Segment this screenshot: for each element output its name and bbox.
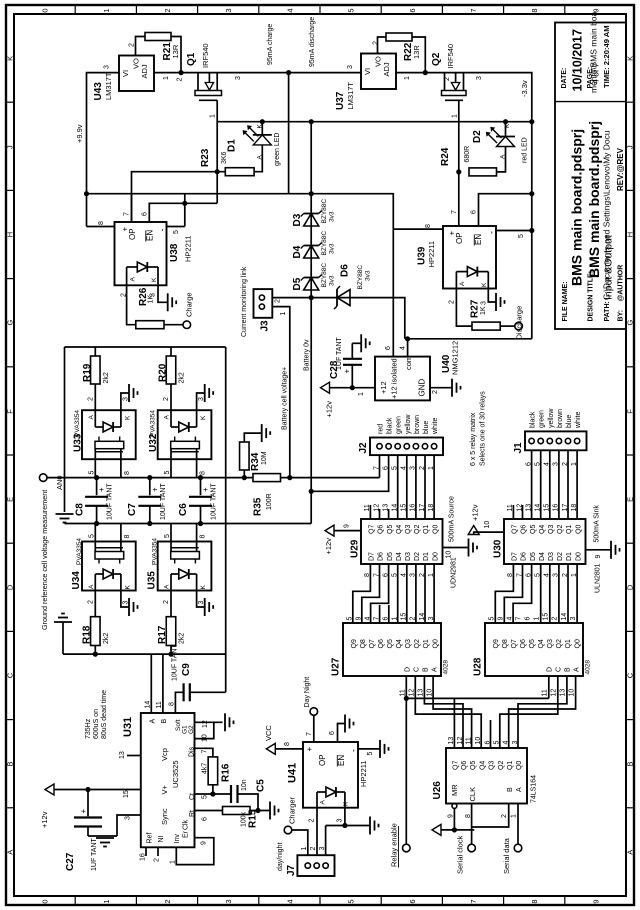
svg-text:-: - [487,231,497,234]
svg-text:+12v: +12v [40,811,49,828]
svg-text:5: 5 [88,471,95,475]
svg-text:C8: C8 [75,503,86,516]
svg-text:9: 9 [591,899,600,903]
svg-text:K: K [151,277,158,282]
svg-text:12: 12 [202,720,209,728]
power VCC U41 pin8 [264,725,303,755]
svg-text:1: 1 [392,617,399,621]
svg-text:K: K [200,415,207,420]
svg-text:2: 2 [444,77,451,81]
svg-text:6 x 5 relay matrix: 6 x 5 relay matrix [470,412,477,466]
svg-text:BZY88C: BZY88C [321,231,328,256]
svg-text:D: D [626,584,635,590]
svg-text:A: A [88,415,95,420]
resistor R18 [82,591,111,655]
pin AN0 [39,474,64,490]
wire left vertical to AN0 rail [64,347,66,478]
svg-text:Q3: Q3 [405,639,412,648]
resistor R17 [157,591,186,655]
wire Q1 gate down [216,100,218,203]
svg-text:7: 7 [124,212,131,216]
svg-text:+12: +12 [379,381,388,394]
svg-text:ADJ: ADJ [382,62,391,76]
resistor R27 [470,299,501,330]
svg-text:100R: 100R [266,493,273,510]
wire U38 pin6 [142,203,218,222]
svg-text:G: G [6,320,15,326]
svg-text:green: green [539,410,546,428]
junction R24 gate wire [456,169,461,174]
svg-text:8: 8 [169,702,176,706]
svg-text:Q6: Q6 [461,761,468,770]
svg-text:15: 15 [401,613,408,621]
svg-text:blue: blue [566,415,573,428]
svg-text:U31: U31 [122,717,134,737]
svg-text:Q2: Q2 [498,761,505,770]
svg-text:+: + [79,809,88,814]
svg-text:U26: U26 [432,781,443,800]
opto relay U34 [71,524,138,617]
svg-text:D7: D7 [369,552,376,561]
svg-text:B: B [507,787,514,792]
svg-text:14: 14 [419,613,426,621]
title block PAGE row [587,62,601,88]
svg-text:R19: R19 [82,363,93,382]
svg-text:5: 5 [367,752,374,756]
svg-text:U35: U35 [147,571,158,590]
ground R34 [262,424,271,442]
wire Q2 gate down to U39 pin7 [452,100,459,226]
svg-text:Serial clock: Serial clock [456,835,465,874]
resistor R24 [440,146,497,176]
node +9.9v label [75,124,84,143]
svg-text:5: 5 [88,534,95,538]
wires J1 pins to U30 [532,450,578,519]
svg-text:2: 2 [87,397,94,401]
svg-text:D4: D4 [396,552,403,561]
svg-text:C6: C6 [178,503,189,516]
svg-text:D6: D6 [521,552,528,561]
svg-text:ADJ: ADJ [140,64,149,78]
wire U41 pin5 ground [358,740,389,758]
svg-text:1: 1 [163,76,170,80]
svg-text:13: 13 [525,504,532,512]
svg-text:4: 4 [400,346,407,350]
title block PATH row [602,130,615,321]
svg-text:4: 4 [285,899,294,903]
wire U41 pin3 net [326,808,370,856]
svg-text:OP: OP [455,232,464,244]
wire U39 pin6 [471,191,535,226]
svg-text:5: 5 [347,899,356,903]
svg-text:K: K [626,56,635,61]
svg-text:BZY88C: BZY88C [321,199,328,224]
power arrow MR pullup [432,824,441,835]
svg-text:brown: brown [414,415,421,434]
svg-text:HP2211: HP2211 [427,241,436,268]
svg-text:Q1: Q1 [507,761,514,770]
resistor R16 [202,757,232,794]
svg-text:8: 8 [200,471,207,475]
svg-text:R16: R16 [221,763,232,782]
svg-text:OP: OP [128,228,137,240]
svg-text:3: 3 [347,65,354,69]
svg-text:D6: D6 [378,552,385,561]
svg-text:12: 12 [551,689,558,697]
svg-text:LM317T: LM317T [346,82,355,110]
svg-text:3v3: 3v3 [329,243,336,254]
svg-text:R20: R20 [158,363,169,382]
svg-text:G2: G2 [188,725,195,734]
svg-text:white: white [432,418,439,435]
wire U38 pin3 to ground [150,285,168,302]
svg-text:A: A [626,850,635,855]
connector J3 [254,289,288,331]
svg-text:100k: 100k [241,811,248,827]
svg-text:10UF TANT: 10UF TANT [160,483,167,520]
svg-text:Q8: Q8 [360,639,367,648]
power +12v U31 [40,784,141,828]
svg-text:J1: J1 [513,442,524,454]
svg-text:K: K [481,282,488,287]
svg-text:95mA discharge: 95mA discharge [309,17,316,67]
svg-text:Q4: Q4 [479,761,486,770]
wire U29 nc stubs [370,505,388,519]
wire U26 B tie [472,804,509,828]
svg-text:A: A [500,154,507,159]
svg-text:8: 8 [465,814,472,818]
svg-text:-: - [157,229,167,232]
svg-text:5: 5 [518,234,525,238]
svg-text:U34: U34 [71,571,82,590]
junction C28 [350,385,355,390]
svg-text:3: 3 [224,899,233,903]
svg-text:BZY88C: BZY88C [357,265,364,290]
svg-text:A: A [164,584,171,589]
svg-text:A: A [257,155,264,160]
svg-text:7: 7 [469,899,478,903]
svg-text:+: + [201,487,210,492]
svg-text:Q1: Q1 [423,525,430,534]
svg-text:5: 5 [173,230,180,234]
svg-text:black: black [387,417,394,434]
junction bottom rail [93,652,174,657]
title block path overflow text [589,11,599,93]
svg-text:K: K [504,123,511,128]
svg-text:D2: D2 [557,552,564,561]
svg-text:BMS main board.pdsprj: BMS main board.pdsprj [586,121,602,278]
net -3.3v label [520,80,529,97]
svg-text:@AUTHOR: @AUTHOR [618,265,625,302]
junction R16 Ct [210,791,215,796]
svg-text:K: K [257,124,264,129]
wire U27 A to U26 Q5 [433,676,472,748]
svg-text:Q7: Q7 [369,525,376,534]
svg-text:5: 5 [347,8,356,12]
svg-text:1: 1 [534,617,541,621]
svg-text:500mA Source: 500mA Source [449,496,456,542]
svg-text:DATE:: DATE: [561,68,568,89]
svg-text:Q1: Q1 [565,639,572,648]
svg-text:UC3525: UC3525 [171,760,180,788]
svg-text:D0: D0 [432,552,439,561]
power +12v U30 pin10 [468,504,504,534]
wire riser U31 pin B [162,654,164,713]
svg-text:2: 2 [163,8,172,12]
ground U29 pin10 [443,539,478,559]
svg-text:UDN2981: UDN2981 [451,557,458,588]
svg-text:CLK: CLK [468,787,477,802]
wire U38 pin7 [124,194,132,222]
svg-text:Q5: Q5 [470,761,477,770]
svg-text:Vcp: Vcp [160,748,169,761]
svg-text:2: 2 [129,43,136,47]
svg-text:D2: D2 [472,130,483,143]
svg-text:Q2: Q2 [414,525,421,534]
driver U30 [493,504,586,577]
svg-text:red: red [378,424,385,434]
pin numbers U31 [119,701,209,864]
svg-text:8: 8 [530,899,539,903]
wire U26 A to serial data [511,804,519,845]
svg-text:B: B [565,667,572,672]
wire J2 pin7 to AN0 rail [379,455,381,478]
svg-text:735Hz: 735Hz [85,718,92,739]
svg-text:9: 9 [201,841,208,845]
svg-text:+9.9v: +9.9v [75,124,84,143]
svg-text:D: D [6,584,15,590]
svg-text:Day Night: Day Night [304,677,311,708]
svg-text:+12v: +12v [324,538,333,555]
svg-text:BMS main board.pdsprj: BMS main board.pdsprj [569,129,585,286]
svg-text:2k2: 2k2 [179,633,186,644]
opto relay U33 [73,384,138,478]
LED D2 [472,122,529,172]
svg-text:D5: D5 [292,277,303,290]
wire U26 Q3 stub [490,720,492,748]
net 95mA discharge [309,17,316,194]
svg-text:ULN2801: ULN2801 [595,563,602,593]
svg-text:15: 15 [543,613,550,621]
svg-text:A: A [320,800,327,805]
svg-text:VCC: VCC [264,725,273,741]
svg-text:18: 18 [571,504,578,512]
net label battery cell voltage+ [282,367,289,430]
svg-text:9: 9 [498,617,505,621]
svg-text:Er: Er [183,830,190,838]
capacitor C6 [178,478,218,524]
svg-text:2: 2 [432,390,439,394]
junction lower rail [94,521,203,526]
svg-text:ments\BMS main boa: ments\BMS main boa [589,11,599,93]
svg-text:Q3: Q3 [547,639,554,648]
connector J1 [513,408,587,466]
wire U26 CLK to serial clock [465,804,472,845]
label 500mA source [449,496,458,588]
svg-text:Charger: Charger [288,796,297,824]
svg-text:D7: D7 [512,552,519,561]
svg-text:C27: C27 [65,852,76,871]
svg-text:13: 13 [448,737,455,745]
svg-text:Clk: Clk [183,819,190,830]
pin Charger [284,796,308,855]
svg-text:3: 3 [104,65,111,69]
wire +9.9v rail left section [154,72,361,74]
wire OP rail [87,194,394,357]
svg-text:7: 7 [469,8,478,12]
capacitor C9 [172,644,226,713]
svg-text:8: 8 [200,535,207,539]
svg-text:5: 5 [164,471,171,475]
optocoupler U39 [417,226,497,289]
svg-text:D: D [405,667,412,672]
svg-text:5: 5 [202,795,209,799]
wire U31 Ct to C5 [195,793,232,795]
pin relay enable [390,823,411,867]
svg-text:HP2211: HP2211 [359,760,368,787]
svg-text:D5: D5 [387,552,394,561]
svg-text:TIME: 2:20:49 AM: TIME: 2:20:49 AM [602,25,611,88]
svg-text:Q7: Q7 [453,761,460,770]
svg-text:PATH:: PATH: [604,301,611,321]
zener D3 [292,199,336,227]
svg-text:500mA Sink: 500mA Sink [594,505,601,543]
svg-text:2: 2 [121,293,128,297]
svg-text:9: 9 [344,524,351,528]
svg-text:2: 2 [310,847,317,851]
svg-text:green: green [396,416,403,434]
net label relay matrix [470,391,487,466]
svg-text:Q7: Q7 [512,525,519,534]
svg-text:3: 3 [512,741,519,745]
svg-text:7: 7 [202,750,209,754]
capacitor C27 [65,790,102,872]
svg-text:U38: U38 [169,243,180,262]
svg-text:2: 2 [373,41,380,45]
svg-text:5: 5 [489,617,496,621]
svg-text:3v3: 3v3 [365,270,372,281]
wire U39 pin7 label [451,210,458,214]
svg-text:600uS on: 600uS on [93,709,100,739]
svg-text:4028: 4028 [443,660,450,675]
svg-text:3: 3 [235,76,242,80]
LED D1 [227,122,282,172]
wires U29 outputs staircase to U27 [353,564,434,623]
connector J2 [358,414,443,470]
wire U38 pin5 [167,227,185,235]
svg-text:4: 4 [507,617,514,621]
svg-text:+: + [150,487,159,492]
svg-text:A: A [130,277,137,282]
svg-text:Q3: Q3 [405,525,412,534]
junction discharge rail [309,191,314,196]
svg-text:1K: 1K [480,306,487,315]
ground U40 pin2 [452,379,461,397]
svg-text:R34: R34 [250,452,261,471]
svg-text:5: 5 [164,534,171,538]
svg-text:Current monitoring link: Current monitoring link [241,266,248,337]
svg-text:2: 2 [275,299,282,303]
wire U39 pin5 [496,228,534,238]
svg-text:15: 15 [401,504,408,512]
svg-text:2: 2 [163,899,172,903]
svg-text:Q5: Q5 [387,639,394,648]
svg-text:3: 3 [319,847,326,851]
svg-text:B: B [161,719,168,724]
svg-text:A: A [6,850,15,855]
svg-text:K: K [200,585,207,590]
wire J2 pin6 to battery 0v [309,455,389,494]
svg-text:Charge: Charge [185,292,194,317]
svg-text:3: 3 [481,301,488,305]
svg-text:17: 17 [562,504,569,512]
svg-text:D3: D3 [548,552,555,561]
svg-text:11: 11 [156,701,163,708]
svg-text:Q4: Q4 [396,525,403,534]
svg-text:1: 1 [280,312,287,316]
svg-text:2: 2 [309,819,316,823]
power +12v (C28) [321,382,376,417]
svg-text:GND: GND [418,379,427,397]
svg-text:Discharge: Discharge [515,306,524,340]
svg-text:OP: OP [318,754,327,766]
svg-text:Q0: Q0 [432,525,439,534]
resistor R21 [145,33,180,61]
opto relay U32 [148,384,213,478]
svg-text:Q2: Q2 [431,52,442,66]
svg-text:U41: U41 [287,763,299,783]
wire U27 nc stubs [380,605,389,623]
svg-text:Q1: Q1 [566,525,573,534]
svg-text:K: K [124,585,131,590]
svg-text:18: 18 [428,504,435,512]
svg-text:Q4: Q4 [396,639,403,648]
title block DESIGN TITLE row [586,121,602,322]
opto relay U35 [147,524,214,617]
svg-text:2k2: 2k2 [103,372,110,383]
svg-text:Q8: Q8 [502,639,509,648]
svg-text:D6: D6 [340,264,351,277]
capacitor C5 [231,779,267,811]
wire J3 pin1 battery cell voltage+ [272,307,290,478]
svg-text:IRF540: IRF540 [446,44,455,69]
svg-text:1: 1 [358,392,365,396]
svg-text:7: 7 [451,210,458,214]
svg-text:Q1: Q1 [186,52,197,66]
svg-text:Q4: Q4 [539,525,546,534]
junction C27 [85,787,90,792]
svg-text:0: 0 [41,899,50,903]
svg-text:6: 6 [202,817,209,821]
pin serial data [502,837,522,874]
svg-text:C7: C7 [127,503,138,516]
wire U30 nc stubs [513,505,522,519]
svg-text:R18: R18 [82,625,93,644]
svg-text:5: 5 [347,617,354,621]
ground U41 pin3 [370,817,379,835]
svg-text:U37: U37 [335,91,346,110]
svg-text:15: 15 [123,790,130,798]
svg-text:16: 16 [410,504,417,512]
svg-text:V+: V+ [160,784,169,794]
svg-text:+12 isolated: +12 isolated [390,358,399,399]
svg-text:3: 3 [150,293,157,297]
svg-text:16: 16 [553,504,560,512]
svg-text:11: 11 [542,689,549,696]
svg-text:14: 14 [392,504,399,512]
ground bottom rail [54,614,72,655]
wire rail right section to -3.3v [396,73,532,339]
